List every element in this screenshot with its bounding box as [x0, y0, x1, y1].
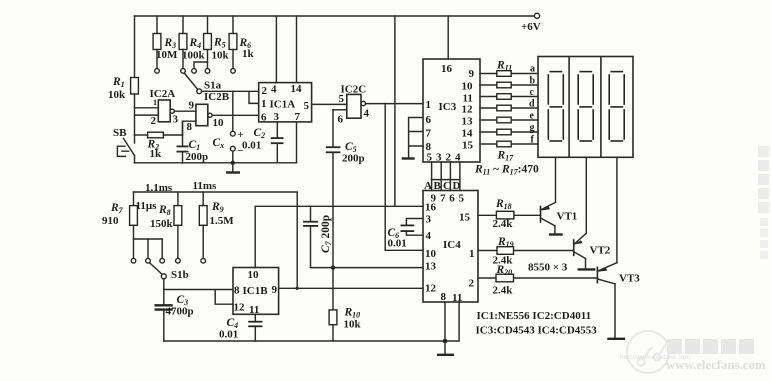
svg-text:10: 10: [213, 117, 225, 129]
IC IC1B (NE556 half): [233, 268, 279, 317]
wire C7/pin13 node: [311, 267, 424, 269]
svg-text:1.5M: 1.5M: [210, 215, 235, 227]
svg-text:2: 2: [469, 278, 475, 290]
transistor VT1: [541, 202, 578, 234]
wire IC2C output to IC3 pin1: [366, 103, 424, 105]
svg-text:12: 12: [462, 104, 474, 116]
resistor R15 (segment e): [480, 117, 538, 123]
wire IC4 pin8/pin11 junction: [443, 302, 459, 354]
svg-text:1k: 1k: [150, 148, 163, 160]
7-segment digit 1: [548, 72, 563, 141]
svg-text:12: 12: [234, 302, 246, 314]
wire R7 triple contact branch: [131, 239, 164, 263]
svg-text:e: e: [530, 111, 535, 122]
segment letter labels: [529, 64, 536, 146]
svg-text:14: 14: [462, 128, 474, 140]
node +6V terminal: [521, 13, 541, 33]
capacitor C2: [242, 122, 284, 163]
svg-text:B: B: [434, 180, 442, 192]
svg-text:IC3:CD4543 IC4:CD4553: IC3:CD4543 IC4:CD4553: [476, 325, 598, 337]
svg-text:IC4: IC4: [443, 239, 461, 251]
LED display assembly box: [538, 57, 633, 158]
wire drop to Cx plus terminal: [232, 91, 234, 131]
gate IC2A: [135, 88, 196, 127]
wire digit1 common lead: [555, 157, 557, 202]
svg-text:IC3: IC3: [439, 101, 457, 113]
svg-text:910: 910: [102, 215, 119, 227]
ground (VT2 collector): [578, 268, 596, 270]
resistor R8: [150, 192, 182, 263]
svg-text:6: 6: [261, 112, 267, 124]
svg-text:c: c: [530, 87, 535, 98]
svg-text:S1b: S1b: [171, 269, 189, 281]
svg-text:9: 9: [272, 284, 278, 296]
wire digit2 common lead: [585, 157, 587, 233]
resistor R5: [204, 16, 230, 73]
node A B C D labels: [424, 180, 461, 192]
wire S1a pole to IC1A pins 1,2: [202, 91, 259, 103]
svg-text:S1a: S1a: [204, 80, 222, 92]
svg-text:7: 7: [295, 111, 301, 123]
svg-text:0.01: 0.01: [242, 140, 261, 152]
svg-text:5: 5: [339, 93, 345, 105]
svg-text:15: 15: [462, 140, 474, 152]
wire IC1A pin4 to rail: [275, 16, 277, 83]
svg-text:1: 1: [426, 99, 432, 111]
svg-text:2: 2: [262, 85, 268, 97]
node dot C5/R10 on pin13 wire: [331, 265, 335, 269]
wire IC3 pin4 to IC4 (D): [459, 162, 461, 191]
svg-text:IC1:NE556 IC2:CD4011: IC1:NE556 IC2:CD4011: [477, 310, 592, 322]
resistor R6: [229, 16, 254, 73]
svg-text:IC1A: IC1A: [270, 99, 296, 111]
switch S1a: [185, 73, 222, 93]
svg-text:http;//www.elecfans.com: http;//www.elecfans.com: [620, 354, 690, 361]
svg-text:11: 11: [249, 304, 259, 316]
wire IC1B pin9 to IC4 pin12: [279, 287, 423, 289]
svg-text:9: 9: [189, 100, 195, 112]
resistor R20: [478, 264, 597, 297]
ground (VT1 collector): [549, 233, 563, 235]
resistor R13 (segment c): [480, 94, 538, 100]
svg-text:4: 4: [364, 108, 370, 120]
svg-text:7: 7: [440, 192, 446, 204]
svg-text:5: 5: [304, 100, 310, 112]
svg-text:13: 13: [462, 116, 474, 128]
wire lower section top rail (IC1B output feed): [134, 192, 298, 288]
svg-text:1k: 1k: [242, 48, 255, 60]
svg-text:11ms: 11ms: [193, 180, 218, 192]
svg-text:8: 8: [187, 121, 193, 133]
gate IC2B: [183, 91, 259, 135]
svg-text:12: 12: [425, 283, 437, 295]
wire digit3 common lead: [616, 157, 618, 262]
svg-text:2.4k: 2.4k: [493, 285, 514, 297]
capacitor Cx terminals: [213, 129, 244, 163]
watermark text bottom right: [667, 339, 754, 354]
capacitor C5: [326, 110, 365, 268]
resistor R1: [108, 16, 138, 143]
gate IC2C: [338, 84, 370, 126]
svg-text:11: 11: [452, 292, 462, 304]
resistor R14 (segment d): [480, 105, 538, 111]
svg-text:IC2C: IC2C: [341, 84, 367, 96]
IC IC3 (CD4543): [423, 59, 480, 164]
svg-text:g: g: [530, 123, 535, 134]
watermark logo bottom right: [627, 331, 669, 373]
7-segment digit 3: [609, 72, 624, 141]
svg-text:7: 7: [426, 128, 432, 140]
svg-text:10: 10: [462, 81, 474, 93]
svg-text:VT3: VT3: [619, 273, 640, 285]
capacitor C1: [177, 121, 209, 163]
resistor R19: [478, 236, 574, 267]
wire S1a extra contact bracket: [192, 62, 208, 73]
svg-text:10k: 10k: [344, 319, 362, 331]
svg-text:4: 4: [271, 84, 277, 96]
capacitor C7: [303, 206, 333, 267]
ground (upper rail): [226, 161, 240, 173]
wire S1b pole down / pin8 node: [163, 279, 165, 305]
wire S1b node to IC1B pin8 and pin12 bracket: [164, 290, 233, 305]
svg-text:15: 15: [459, 212, 471, 224]
wire IC1B pin10 net to IC4 pin16: [255, 206, 423, 267]
svg-text:d: d: [529, 99, 535, 110]
wire IC3 pin2 to IC4 (C): [449, 162, 451, 191]
svg-text:1.1ms: 1.1ms: [145, 182, 173, 194]
svg-text:6: 6: [338, 114, 344, 126]
capacitor C6: [388, 219, 424, 250]
7-segment digit 2: [578, 72, 593, 141]
svg-text:b: b: [530, 76, 536, 87]
resistor R18: [478, 198, 541, 230]
capacitor C3: [155, 294, 194, 341]
svg-text:3: 3: [173, 114, 179, 126]
svg-text:200p: 200p: [342, 153, 365, 165]
ground (VT3 collector): [607, 338, 625, 340]
transistor VT3: [597, 263, 640, 338]
resistor R7: [102, 192, 137, 259]
IC IC4 (CD4553): [423, 191, 478, 305]
svg-text:3: 3: [274, 111, 280, 123]
wire vertical B (rail to pin16 net): [394, 16, 396, 206]
svg-text:4: 4: [426, 230, 432, 242]
wire IC3 pins 6,7,8 bracket: [409, 118, 423, 159]
svg-text:2.4k: 2.4k: [493, 218, 514, 230]
wire IC1A pin7 to ground rail: [296, 122, 298, 163]
transistor VT2: [574, 233, 611, 268]
resistor R12 (segment b): [480, 82, 538, 88]
svg-text:0.01: 0.01: [219, 329, 238, 341]
svg-text:1: 1: [153, 98, 157, 107]
svg-text:1: 1: [261, 98, 267, 110]
svg-text:3: 3: [426, 214, 432, 226]
wire IC3 pin16 to rail: [447, 16, 449, 59]
resistor R4: [179, 16, 205, 73]
svg-text:200p: 200p: [186, 151, 209, 163]
svg-text:A: A: [424, 180, 432, 192]
wire IC3 pin3 to IC4 (B): [440, 162, 442, 191]
svg-text:IC2B: IC2B: [204, 91, 230, 103]
svg-text:16: 16: [441, 63, 453, 75]
svg-text:SB: SB: [113, 127, 127, 139]
svg-text:0.01: 0.01: [388, 238, 407, 250]
svg-text:+6V: +6V: [521, 21, 541, 33]
svg-text:16: 16: [425, 202, 437, 214]
svg-text:100k: 100k: [182, 50, 206, 62]
wire bottom ground rail: [164, 340, 445, 342]
wire upper ground rail: [135, 162, 297, 164]
switch SB (push button): [113, 127, 135, 163]
switch S1b: [150, 263, 189, 281]
watermark vertical right edge: [758, 146, 769, 213]
svg-text:10k: 10k: [108, 89, 126, 101]
svg-text:8: 8: [441, 291, 447, 303]
resistor R11 (segment a): [480, 71, 538, 77]
ground (IC4 pins 8,11): [437, 354, 454, 356]
svg-text:10k: 10k: [212, 50, 230, 62]
wire IC3 pin5 to IC4 (A): [431, 162, 433, 191]
wire top +6V rail: [135, 15, 535, 17]
svg-text:IC1B: IC1B: [243, 285, 269, 297]
resistor R2: [135, 132, 183, 160]
resistor R9: [199, 192, 234, 263]
svg-text:6: 6: [449, 192, 455, 204]
svg-text:6: 6: [426, 114, 432, 126]
svg-text:10: 10: [248, 269, 260, 281]
wire IC1A pin5 output: [312, 103, 347, 105]
svg-text:10M: 10M: [156, 49, 178, 61]
svg-text:8: 8: [234, 285, 240, 297]
svg-text:C7 200p: C7 200p: [320, 215, 333, 253]
svg-text:4700p: 4700p: [166, 306, 194, 318]
wire IC2C pin6 stub: [333, 109, 347, 111]
svg-text:2: 2: [151, 115, 157, 127]
svg-text:11μs: 11μs: [136, 200, 158, 212]
ground (IC3 pins 6,7,8): [402, 157, 415, 159]
svg-text:VT2: VT2: [590, 245, 611, 257]
wire vertical A (IC2C out to IC4 pin10): [385, 104, 423, 251]
op-amp/timer IC1A (NE556 half): [259, 83, 312, 124]
resistor R10: [329, 268, 361, 341]
svg-text:10: 10: [425, 248, 437, 260]
svg-text:13: 13: [425, 261, 437, 273]
svg-text:5: 5: [459, 192, 465, 204]
svg-text:150k: 150k: [150, 218, 174, 230]
svg-text:a: a: [530, 64, 535, 75]
svg-text:14: 14: [291, 83, 303, 95]
wire IC1A pin14 to rail: [296, 16, 298, 83]
svg-text:1: 1: [469, 248, 475, 260]
svg-text:9: 9: [469, 68, 475, 80]
resistor R3: [153, 16, 178, 73]
svg-text:8550 × 3: 8550 × 3: [528, 262, 568, 274]
resistor R17 (segment f): [480, 141, 538, 147]
svg-text:VT1: VT1: [557, 211, 578, 223]
resistor R16 (segment g): [480, 129, 538, 135]
capacitor C4: [219, 314, 262, 341]
